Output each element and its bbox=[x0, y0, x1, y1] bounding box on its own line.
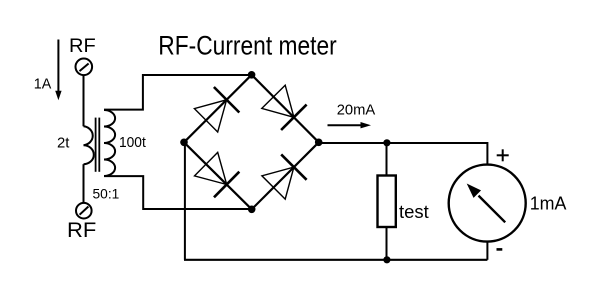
wire bbox=[386, 143, 388, 176]
transformer T1 primary winding 2t bbox=[84, 126, 94, 164]
svg-text:test: test bbox=[399, 202, 429, 222]
svg-text:20mA: 20mA bbox=[337, 101, 376, 118]
wire secondary bottom to bridge bbox=[104, 176, 252, 209]
wire meter bottom bbox=[486, 242, 488, 260]
svg-text:2t: 2t bbox=[57, 136, 69, 152]
node right bbox=[315, 139, 323, 147]
current arrow 20mA bbox=[328, 122, 372, 128]
svg-text:RF-Current meter: RF-Current meter bbox=[158, 31, 337, 61]
node left bbox=[180, 139, 188, 147]
diode D1 bbox=[194, 87, 239, 132]
wire bridge edge left-top bbox=[184, 75, 252, 143]
resistor R1 test bbox=[378, 176, 396, 228]
wire bottom rail bbox=[184, 259, 487, 261]
meter M1 bbox=[449, 165, 526, 242]
wire bridge edge top-right bbox=[252, 75, 319, 143]
node top bbox=[248, 71, 256, 79]
label - bbox=[497, 248, 503, 251]
transformer T1 secondary winding 100t bbox=[104, 110, 115, 176]
junction node at resistor bottom bbox=[383, 256, 390, 263]
junction node at resistor top bbox=[383, 139, 390, 146]
diode D4 bbox=[262, 154, 307, 199]
diode D2 bbox=[262, 85, 307, 130]
wire bbox=[83, 164, 85, 203]
diode D3 bbox=[195, 152, 240, 197]
wire bbox=[83, 75, 85, 126]
svg-text:50:1: 50:1 bbox=[93, 185, 120, 201]
current arrow 1A bbox=[55, 40, 61, 101]
wire bbox=[386, 227, 388, 260]
label + bbox=[497, 149, 509, 161]
wire bridge edge left-bottom bbox=[184, 142, 252, 209]
terminal RF top bbox=[76, 59, 93, 76]
wire secondary top to bridge bbox=[104, 75, 252, 110]
wire bridge right to meter bbox=[319, 143, 488, 165]
svg-text:1mA: 1mA bbox=[530, 192, 567, 213]
svg-text:RF: RF bbox=[67, 219, 96, 242]
wire bridge edge bottom-right bbox=[252, 142, 319, 209]
terminal RF bottom bbox=[76, 203, 92, 219]
svg-text:RF: RF bbox=[69, 35, 96, 57]
wire bridge left node down bbox=[184, 142, 186, 259]
node bottom bbox=[248, 206, 256, 214]
svg-text:100t: 100t bbox=[119, 134, 147, 151]
transformer T1 core bbox=[96, 118, 100, 172]
svg-text:1A: 1A bbox=[34, 77, 52, 93]
